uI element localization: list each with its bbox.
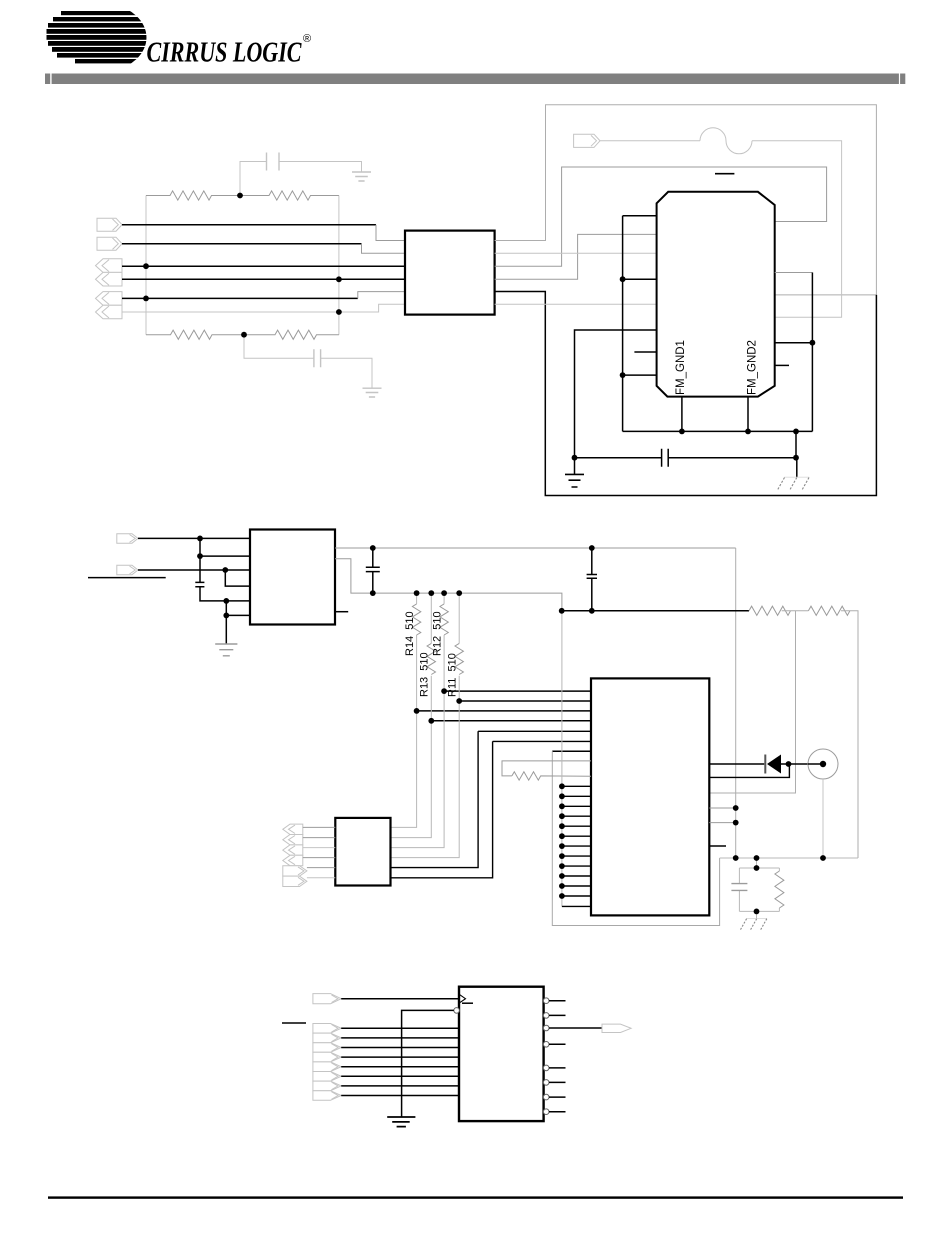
wire antenna to fuse: [600, 140, 700, 142]
junction rail gnd1: [679, 429, 685, 435]
wire bus column 5: [391, 731, 592, 867]
bubble CLR pin: [454, 1008, 460, 1014]
net C loop (U1 to FM module right pin): [495, 167, 827, 266]
resistor R14 column: [391, 593, 417, 827]
U2 no-connect stub: [335, 611, 348, 613]
ground GND2 (bottom of input filter): [363, 388, 382, 397]
FM left pin mid: [623, 278, 657, 280]
wire row1 jog to U1: [376, 225, 405, 241]
connector tip notches P4 P5: [130, 535, 136, 575]
tank bottom wire: [739, 910, 779, 912]
wire R11 tap to U3: [459, 700, 591, 702]
junction tank bottom: [754, 909, 760, 915]
wire cap C4 upper lead: [199, 556, 201, 582]
connector P7a data port: [313, 1024, 341, 1034]
net B wire (U1 to FM module): [495, 252, 657, 254]
junction rail tank: [754, 855, 760, 861]
net VA rail (U2 to right column): [335, 547, 736, 549]
junction pin5: [223, 598, 229, 604]
wire row4 black: [122, 278, 405, 280]
resistor R4 (bottom row right): [244, 330, 339, 339]
wire U3 diode pin: [709, 763, 764, 765]
junction VB R12: [441, 590, 447, 596]
wire R13 tap to U3: [431, 720, 591, 722]
connector J4f pentagon: [283, 876, 307, 886]
wire U3 second pin to diode node: [709, 764, 789, 777]
junction VB R14: [414, 590, 420, 596]
black mid rail: [562, 610, 749, 612]
connector P7f data port: [313, 1072, 341, 1082]
IC U5 (latch box): [459, 987, 544, 1121]
resistor R1 (top row left): [146, 191, 240, 200]
connector P1 (row1 output port): [97, 218, 122, 231]
svg-text:R12 510: R12 510: [432, 611, 444, 656]
wire R12 tap to U3: [444, 690, 591, 692]
tank top wire: [739, 867, 779, 869]
FM left pin bus: [622, 216, 624, 432]
feedback resistor net: [502, 761, 591, 776]
connector J1b (row4 chevron port): [96, 272, 123, 286]
wire jack into pin: [808, 763, 820, 765]
U3 right pin row A: [709, 807, 735, 809]
junction VB R13: [428, 590, 434, 596]
FM right pin black: [775, 342, 813, 344]
FM ground rail: [623, 430, 813, 432]
no-connect dash above FM module: [715, 173, 734, 175]
svg-text:CIRRUS LOGIC: CIRRUS LOGIC: [147, 37, 302, 69]
junction VA cap left: [370, 545, 376, 551]
wire row2 black: [122, 243, 362, 245]
wire CLR to ground: [402, 1010, 454, 1117]
junction FM bus mid: [620, 276, 626, 282]
connector J2b (row6 chevron port): [96, 305, 123, 319]
wire cap C2 net: [244, 335, 372, 389]
wire P7e to U5: [341, 1066, 459, 1068]
svg-text:R11 510: R11 510: [447, 653, 459, 697]
wire cap C4 lower lead: [200, 587, 250, 601]
junction row6: [336, 309, 342, 315]
connector J4b chevron: [283, 835, 303, 845]
junction row4 right: [336, 276, 342, 282]
wire row1 black: [122, 224, 376, 226]
capacitor C5 leads: [372, 548, 374, 593]
svg-text:FM_GND2: FM_GND2: [747, 340, 759, 395]
junction rail jack: [820, 855, 826, 861]
junction cap rail right: [793, 455, 799, 461]
wire to earth ground: [574, 458, 576, 475]
resistor R13 column: [391, 593, 432, 838]
wire row2 jog to U1: [362, 244, 406, 254]
connector J4a chevron: [283, 824, 303, 834]
net D wire (U1 to FM module): [495, 234, 657, 279]
wire row6 gray: [122, 304, 405, 312]
ground GND3 (earth): [565, 474, 584, 487]
connector J2a (row5 chevron port): [96, 292, 123, 306]
wire tank to chassis: [756, 911, 758, 918]
fuse F1 (S-curve): [700, 128, 752, 154]
unlabeled net stub: [88, 577, 166, 579]
capacitor C4 plates: [195, 582, 204, 586]
junction FM bus low: [620, 372, 626, 378]
junction pin6: [223, 613, 229, 619]
capacitor C6 plates: [587, 575, 597, 579]
junction R3-R4 node: [241, 332, 247, 338]
resistor R17 zigzag: [512, 772, 591, 780]
wire P6 to U5: [341, 998, 459, 1000]
resistor R11 zigzag: [455, 643, 463, 674]
FM_GND2 pin down: [747, 397, 749, 432]
clock wedge on U5: [459, 994, 466, 1003]
FM right pin to riser: [775, 272, 813, 274]
U5 output bubbles: [543, 998, 549, 1115]
net A loop (U1 pin to FM module around top): [495, 105, 877, 295]
junction pin1: [197, 536, 203, 542]
wire J4d to U4: [303, 857, 336, 859]
wire branch pin4: [225, 570, 250, 586]
junction pin2: [197, 553, 203, 559]
svg-text:R13 510: R13 510: [419, 652, 431, 697]
wire to ground GND4: [225, 615, 227, 644]
junction row A: [733, 805, 739, 811]
wire P7h to U5: [341, 1095, 459, 1097]
svg-text:®: ®: [303, 33, 311, 45]
connector P7b data port: [313, 1033, 341, 1043]
connector P2 (row2 output port): [97, 237, 122, 250]
header gray bar right cap: [900, 74, 905, 85]
wire right feedback vertical: [338, 196, 340, 335]
junction R13 tap: [428, 718, 434, 724]
junction R1-R2 node: [237, 193, 243, 199]
junction riser: [810, 340, 816, 346]
header gray bar: [52, 74, 899, 85]
capacitor C7 plates: [731, 884, 747, 891]
IC U1 (line driver box): [405, 231, 495, 315]
resistor R12 zigzag: [440, 604, 448, 635]
unlabeled stub dash: [282, 1022, 306, 1024]
FM left pin top: [623, 215, 657, 217]
diode D1 triangle: [767, 755, 781, 774]
wire P7d to U5: [341, 1056, 459, 1058]
junction rail gnd2: [745, 429, 751, 435]
connector J1a (row3 chevron port): [96, 259, 123, 273]
junction tank top: [754, 865, 760, 871]
wire P7c to U5: [341, 1047, 459, 1049]
wire cap C1 net: [240, 162, 362, 196]
wire rail to cap rail: [795, 431, 797, 457]
wire P5 to U2: [138, 569, 250, 571]
capacitor C5 plates: [366, 567, 380, 571]
wire output row3: [549, 1027, 602, 1029]
wire P7a to U5: [341, 1027, 459, 1029]
junction R11 tap: [456, 698, 462, 704]
svg-text:R14 510: R14 510: [404, 611, 416, 656]
wire row3 black: [122, 265, 405, 267]
wire P7f to U5: [341, 1075, 459, 1077]
connector J4c chevron: [283, 845, 303, 855]
wire fuse to FM module: [752, 141, 842, 317]
ground GND4: [215, 644, 237, 656]
diode D1 cathode bar: [764, 755, 766, 774]
junction rail chassis drop: [793, 429, 799, 435]
resistor R2 (top row right): [240, 191, 339, 200]
net E2 wire (FM pin to cap rail): [575, 330, 657, 458]
connector tip notches (bottom section): [332, 995, 628, 1099]
connector P7g data port: [313, 1081, 341, 1091]
capacitor C3 plates: [662, 449, 669, 467]
wire P4 to U2: [138, 537, 250, 539]
connector P3 (antenna port): [574, 134, 600, 147]
capacitor C1 plates: [267, 153, 280, 171]
jack center pin: [820, 761, 826, 767]
capacitor C6 leads: [591, 548, 593, 611]
IC U3 (decoder big box): [591, 678, 709, 915]
connector tip notches J4: [289, 825, 305, 885]
connector P5 (data input port): [117, 565, 138, 575]
wire J4a to U4: [303, 826, 336, 828]
resistor R14 zigzag: [412, 604, 420, 635]
IC U2 (serial interface box): [250, 530, 335, 625]
resistor R12 column: [391, 593, 445, 848]
junction dot layer: [143, 193, 826, 915]
U3 right no-connect stub: [709, 845, 726, 847]
wire to chassis ground: [796, 458, 798, 477]
connector J4d chevron: [283, 855, 303, 865]
wire R14 tap to U3: [417, 710, 591, 712]
junction row B: [733, 820, 739, 826]
junction rail VA: [733, 855, 739, 861]
net F wire (U1 to FM module): [495, 303, 657, 305]
junction VA cap right: [589, 545, 595, 551]
tank feed wire: [756, 858, 758, 868]
connector J4e pentagon: [283, 866, 307, 876]
junction row5 left: [143, 296, 149, 302]
cap rail wire: [575, 457, 797, 459]
capacitor C7 leads: [738, 868, 740, 911]
wire between divider resistors: [782, 610, 809, 612]
connector tip notches (top section): [102, 219, 118, 318]
wire divider tap down: [709, 611, 795, 793]
svg-text:FM_GND1: FM_GND1: [675, 340, 687, 395]
FM tuner module M1: [657, 192, 775, 397]
wire bus column 6: [391, 741, 592, 877]
negation dash inside U5: [462, 1002, 473, 1004]
resistor R13 zigzag: [427, 643, 435, 674]
wire left feedback vertical: [145, 196, 147, 335]
wrap net pin: [552, 750, 591, 752]
net E black loop (U1 pin around bottom): [495, 292, 877, 496]
wire P7g to U5: [341, 1085, 459, 1087]
junction diode node: [786, 761, 792, 767]
FM_GND1 pin down: [681, 397, 683, 432]
wire row5 black: [122, 297, 358, 299]
capacitor C2 plates: [314, 349, 321, 367]
FM left no-connect stub: [634, 351, 656, 353]
chassis ground CH1: [784, 476, 809, 478]
U3 left bus pins: [562, 786, 591, 906]
chassis ground CH2: [746, 917, 767, 919]
ground GND1 (top): [352, 172, 371, 181]
connector P7h data port: [313, 1091, 341, 1101]
IC bus vertical with pin dots: [561, 611, 563, 907]
header gray bar left cap: [45, 74, 50, 85]
junction mid rail cap: [589, 608, 595, 614]
junction mid rail left: [559, 608, 565, 614]
wire branch pin2: [200, 538, 250, 556]
connector P6 (clock port): [313, 994, 341, 1004]
ground GND5: [387, 1117, 415, 1127]
FM right no-connect stub: [775, 364, 789, 366]
junction R14 tap: [414, 708, 420, 714]
wrap net route under U3: [552, 751, 719, 925]
resistor R18 leads: [778, 868, 780, 911]
junction R12 tap: [441, 688, 447, 694]
wire P7b to U5: [341, 1037, 459, 1039]
junction pin3: [222, 567, 228, 573]
connector P4 (clock input port): [117, 534, 138, 544]
FM left pin low: [623, 374, 657, 376]
resistor R16 (divider right): [808, 606, 850, 615]
wire diode to jack: [781, 763, 821, 765]
Cirrus Logic logo globe: [47, 11, 157, 63]
connector P7e data port: [313, 1062, 341, 1072]
connector P8 (output port): [602, 1024, 631, 1032]
connector P7c data port: [313, 1043, 341, 1053]
IC U4 (level shifter small box): [335, 818, 390, 886]
resistor R15 (divider left): [749, 606, 791, 615]
junction cap rail left: [572, 455, 578, 461]
wire divider to right column: [841, 611, 858, 858]
resistor R18 zigzag: [775, 871, 784, 908]
net VA column down: [735, 548, 737, 858]
connector tip notch P3: [591, 135, 597, 146]
wire row5 jog to U1: [358, 292, 405, 299]
wire J4e to U4: [307, 867, 335, 869]
bottom gray rail: [720, 857, 858, 859]
junctions U3 bus: [0, 0, 1, 1]
junction VB cap: [370, 590, 376, 596]
junction VB R11: [456, 590, 462, 596]
wire branch pin6: [226, 601, 250, 616]
U5 output stubs: [549, 1001, 566, 1112]
right riser black: [811, 273, 813, 432]
wire jack shield down: [822, 779, 824, 858]
resistor R3 (bottom row left): [146, 330, 244, 339]
wire J4f to U4: [307, 877, 335, 879]
footer rule: [48, 1196, 903, 1198]
wire J4b to U4: [303, 837, 336, 839]
connector P7d data port: [313, 1052, 341, 1062]
U3 right pin row B: [709, 822, 735, 824]
resistor R11 column: [391, 593, 460, 858]
junction row3 left: [143, 263, 149, 269]
net VB rail (U2 to resistor tops): [335, 559, 562, 611]
connector jack J3 circle: [808, 749, 838, 779]
wire J4c to U4: [303, 847, 336, 849]
